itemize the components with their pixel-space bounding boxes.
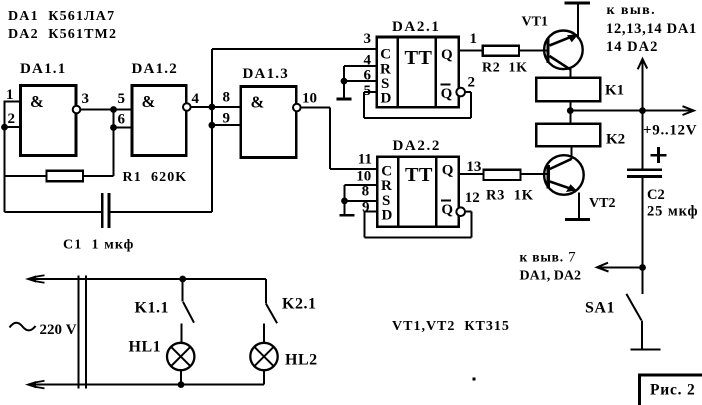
junction dot K1.1 top	[179, 276, 186, 283]
svg-text:K1.1: K1.1	[135, 300, 169, 317]
gate DA1.2	[132, 61, 191, 156]
svg-text:1: 1	[470, 31, 478, 47]
svg-text:C: C	[380, 47, 391, 63]
switch SA1	[585, 294, 642, 349]
svg-text:Q: Q	[442, 163, 454, 179]
label K2	[606, 132, 625, 148]
svg-text:Q: Q	[441, 202, 453, 218]
wire R1 to DA1.2 inputs vertical	[113, 110, 115, 177]
lamp HL2	[250, 324, 317, 385]
transistor VT1	[522, 15, 583, 70]
svg-text:14 DA2: 14 DA2	[606, 39, 658, 55]
value label R1 620K	[123, 170, 188, 185]
junction dot pin9 net	[209, 122, 216, 129]
wire DA1.2 output to DA1.3 pin8	[191, 106, 241, 108]
wire DA1.3 output to DA2.2 pin11	[301, 108, 378, 169]
pin 2 label DA2.1	[468, 74, 476, 90]
figure caption box Ris.2	[640, 375, 702, 405]
svg-text:D: D	[382, 208, 393, 224]
pin 2 label DA1.1	[8, 111, 16, 127]
svg-text:DA1.1: DA1.1	[20, 61, 66, 77]
svg-text:R: R	[381, 178, 392, 194]
svg-text:220 V: 220 V	[40, 322, 77, 338]
pin 1 label DA2.1	[470, 31, 478, 47]
svg-text:5: 5	[118, 91, 126, 107]
junction dot pin5 net	[110, 106, 117, 113]
period mark	[473, 378, 476, 381]
gate DA1.3	[241, 66, 301, 158]
resistor R3	[484, 170, 521, 180]
pin 8 label DA1.3	[223, 90, 231, 106]
pin 10 label DA1.3	[302, 91, 317, 107]
wire DA2.2 S input	[345, 200, 378, 202]
resistor R2	[483, 46, 519, 56]
svg-text:R2 1K: R2 1K	[482, 61, 528, 76]
svg-text:K2: K2	[606, 132, 625, 148]
svg-text:3: 3	[364, 31, 372, 47]
label K1	[605, 83, 624, 99]
pin 3 label DA1.1	[82, 91, 90, 107]
wire DA2.2 R input	[345, 185, 378, 214]
svg-text:Q: Q	[441, 86, 453, 102]
flip-flop DA2.1	[377, 19, 459, 107]
svg-text:VT1,VT2 КТ315: VT1,VT2 КТ315	[392, 319, 510, 334]
pin 3 label DA2.1	[364, 31, 372, 47]
svg-text:VT2: VT2	[589, 196, 615, 211]
svg-text:TT: TT	[405, 164, 433, 186]
svg-text:DA1.3: DA1.3	[243, 66, 289, 82]
svg-text:13: 13	[466, 159, 481, 175]
svg-text:C1 1 мкф: C1 1 мкф	[63, 238, 134, 253]
inversion circle DA2.2 Q-bar pin12	[456, 207, 465, 216]
lamp HL1	[129, 324, 195, 385]
relay K1	[536, 78, 600, 101]
svg-text:2: 2	[8, 111, 16, 127]
wire left feedback vertical	[4, 101, 6, 212]
label AC 220V	[10, 322, 77, 338]
wire DA2.1 D to Q-bar loop	[364, 92, 471, 118]
svg-text:DA1 К561ЛА7: DA1 К561ЛА7	[8, 9, 115, 24]
wire R3 to VT2 base	[521, 173, 547, 175]
wire DA2.1 S input	[344, 80, 377, 82]
svg-text:DA2.1: DA2.1	[392, 19, 440, 35]
wire top run to DA2.1 pin3	[212, 48, 377, 50]
pin 8 label DA2.2	[362, 184, 370, 200]
wire VT1 collector riser	[577, 4, 579, 37]
svg-text:к выв.: к выв.	[607, 3, 657, 18]
svg-text:Q: Q	[441, 47, 453, 63]
svg-text:10: 10	[356, 169, 371, 185]
pin 13 label DA2.2	[466, 159, 481, 175]
svg-text:DA1.2: DA1.2	[132, 61, 178, 77]
common bar DA2.1 RS	[337, 98, 352, 101]
wire DA1.1 pin1	[5, 101, 21, 103]
svg-text:D: D	[381, 91, 392, 107]
svg-text:6: 6	[118, 112, 126, 128]
svg-text:TT: TT	[405, 47, 433, 69]
pin 5 label DA1.2	[118, 91, 126, 107]
wire C2 down to SA1	[642, 177, 644, 294]
wire K2 to VT2 collector	[571, 146, 573, 159]
value label C2 25mkf	[647, 187, 698, 220]
junction dot RS net DA2.1	[341, 78, 348, 85]
label to supply pins of DA1 DA2	[606, 3, 697, 55]
wire K1 to K2	[569, 101, 571, 124]
wire DA2.2 Q pin13 to R3	[459, 173, 484, 175]
svg-text:C2: C2	[647, 187, 665, 203]
svg-text:11: 11	[358, 152, 372, 168]
terminal bar SA1 bottom	[630, 349, 660, 351]
svg-text:S: S	[381, 76, 389, 92]
value label R2 1K	[482, 61, 528, 76]
svg-text:+9..12V: +9..12V	[643, 123, 697, 139]
pin 9 label DA2.2	[362, 199, 370, 215]
svg-text:K1: K1	[605, 83, 624, 99]
svg-text:9: 9	[223, 111, 231, 127]
wire VT2 emitter down	[578, 193, 580, 219]
label +9..12V	[643, 123, 697, 139]
pin 6 label DA2.1	[364, 68, 372, 84]
terminal bar VT1 top	[564, 2, 590, 5]
svg-text:VT1: VT1	[522, 15, 548, 30]
wire DA1.3 pin9	[212, 124, 241, 126]
svg-text:2: 2	[468, 74, 476, 90]
wire R2 to VT1 base	[519, 50, 546, 52]
svg-text:10: 10	[302, 91, 317, 107]
wire with left arrow to pin7	[597, 263, 643, 272]
inversion circle DA2.1 Q-bar pin2	[456, 88, 465, 97]
svg-text:12: 12	[465, 190, 480, 206]
junction dot relay supply	[567, 107, 574, 114]
flip-flop DA2.2	[377, 138, 459, 227]
wire plus rail to C2	[642, 111, 644, 170]
svg-text:к выв. 7: к выв. 7	[520, 250, 577, 266]
label DA2 chip type	[8, 27, 117, 42]
svg-text:&: &	[30, 92, 44, 111]
svg-text:12,13,14 DA1: 12,13,14 DA1	[606, 21, 697, 37]
value label C1 1mkf	[63, 238, 134, 253]
svg-text:25 мкф: 25 мкф	[647, 204, 698, 220]
svg-text:R3 1K: R3 1K	[486, 188, 534, 204]
svg-text:3: 3	[82, 91, 90, 107]
svg-text:R1 620K: R1 620K	[123, 170, 188, 185]
pin 1 label DA1.1	[6, 87, 14, 103]
svg-text:S: S	[382, 193, 390, 209]
pin 9 label DA1.3	[223, 111, 231, 127]
junction dot HL1 bottom	[178, 381, 185, 388]
svg-text:C: C	[381, 163, 392, 179]
wire DA1.2 pin6	[114, 127, 133, 129]
common bar DA2.2 RS	[339, 214, 354, 217]
terminal bar VT2 emitter	[565, 218, 590, 221]
label DA1 chip type	[8, 9, 115, 24]
capacitor C2	[627, 147, 667, 176]
svg-text:DA1, DA2: DA1, DA2	[520, 269, 581, 284]
label to pin7 of DA1 DA2	[520, 250, 581, 284]
pin 4 label DA2.1	[364, 53, 372, 69]
svg-text:DA2.2: DA2.2	[393, 138, 441, 154]
junction dot plus rail	[639, 107, 646, 114]
svg-text:K2.1: K2.1	[282, 296, 316, 313]
pin 4 label DA1.2	[192, 91, 200, 107]
pin 12 label DA2.2	[465, 190, 480, 206]
value label R3 1K	[486, 188, 534, 204]
svg-text:4: 4	[192, 91, 200, 107]
junction dot pin8 net	[209, 104, 216, 111]
junction dot pin6 net	[110, 124, 117, 131]
svg-text:Рис. 2: Рис. 2	[650, 382, 696, 399]
svg-text:&: &	[251, 93, 265, 112]
relay contact K1.1	[135, 279, 195, 323]
label VT transistor types	[392, 319, 510, 334]
svg-text:&: &	[142, 92, 156, 111]
capacitor C1	[5, 193, 212, 228]
wire DA2.1 R input	[344, 66, 377, 98]
junction dot RS net DA2.2	[341, 198, 348, 205]
pin 6 label DA1.2	[118, 112, 126, 128]
wire VT1 emitter to K1	[569, 69, 571, 78]
svg-text:8: 8	[223, 90, 231, 106]
svg-text:HL2: HL2	[285, 352, 318, 369]
gate DA1.1	[20, 61, 80, 156]
wire C1 net vertical	[211, 49, 213, 212]
junction dot minus rail	[639, 264, 646, 271]
wire DA2.2 D to Q-bar loop	[364, 212, 471, 238]
wire DA1.1 pin2	[5, 126, 21, 128]
resistor R1	[5, 171, 114, 181]
svg-text:HL1: HL1	[129, 339, 162, 356]
pin 11 label DA2.2	[358, 152, 372, 168]
transistor VT2	[544, 155, 615, 211]
relay contact K2.1	[266, 279, 316, 323]
pin 10 label DA2.2	[356, 169, 371, 185]
svg-text:DA2 К561ТМ2: DA2 К561ТМ2	[8, 27, 117, 42]
wire DA2.1 Q pin1 to R2	[459, 50, 483, 52]
wire supply rail with right arrow	[570, 106, 694, 115]
junction dot pin2 net	[1, 124, 8, 131]
arrow up to supply pins	[638, 59, 648, 111]
wire DA1.1 output to DA1.2 pin5	[80, 109, 132, 111]
mains connector double line	[79, 276, 86, 389]
wire mains top with left arrow	[25, 275, 266, 283]
svg-text:SA1: SA1	[585, 300, 615, 317]
pin 5 label DA2.1	[364, 83, 372, 99]
relay K2	[536, 124, 600, 147]
wire mains bottom with left arrow	[25, 381, 264, 389]
